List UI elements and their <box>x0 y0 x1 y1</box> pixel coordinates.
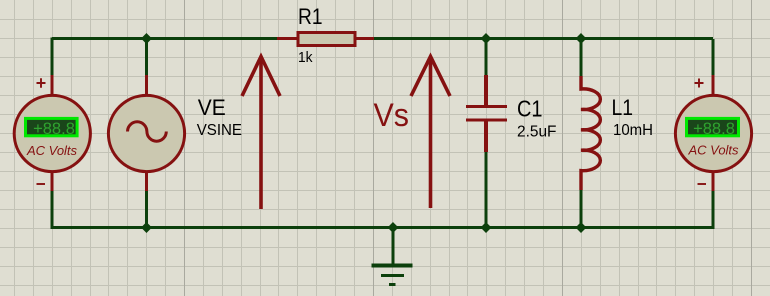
svg-text:+88.8: +88.8 <box>693 120 735 138</box>
svg-text:VSINE: VSINE <box>197 122 242 139</box>
svg-text:+88.8: +88.8 <box>33 120 75 138</box>
svg-text:10mH: 10mH <box>613 122 653 139</box>
svg-text:1k: 1k <box>298 49 313 66</box>
svg-text:AC Volts: AC Volts <box>687 143 739 158</box>
svg-text:Vs: Vs <box>374 97 410 133</box>
svg-text:L1: L1 <box>612 95 634 120</box>
svg-text:C1: C1 <box>517 96 543 122</box>
svg-text:R1: R1 <box>298 4 323 29</box>
svg-text:2.5uF: 2.5uF <box>517 124 557 141</box>
svg-text:AC Volts: AC Volts <box>26 143 78 158</box>
svg-text:VE: VE <box>198 95 226 120</box>
